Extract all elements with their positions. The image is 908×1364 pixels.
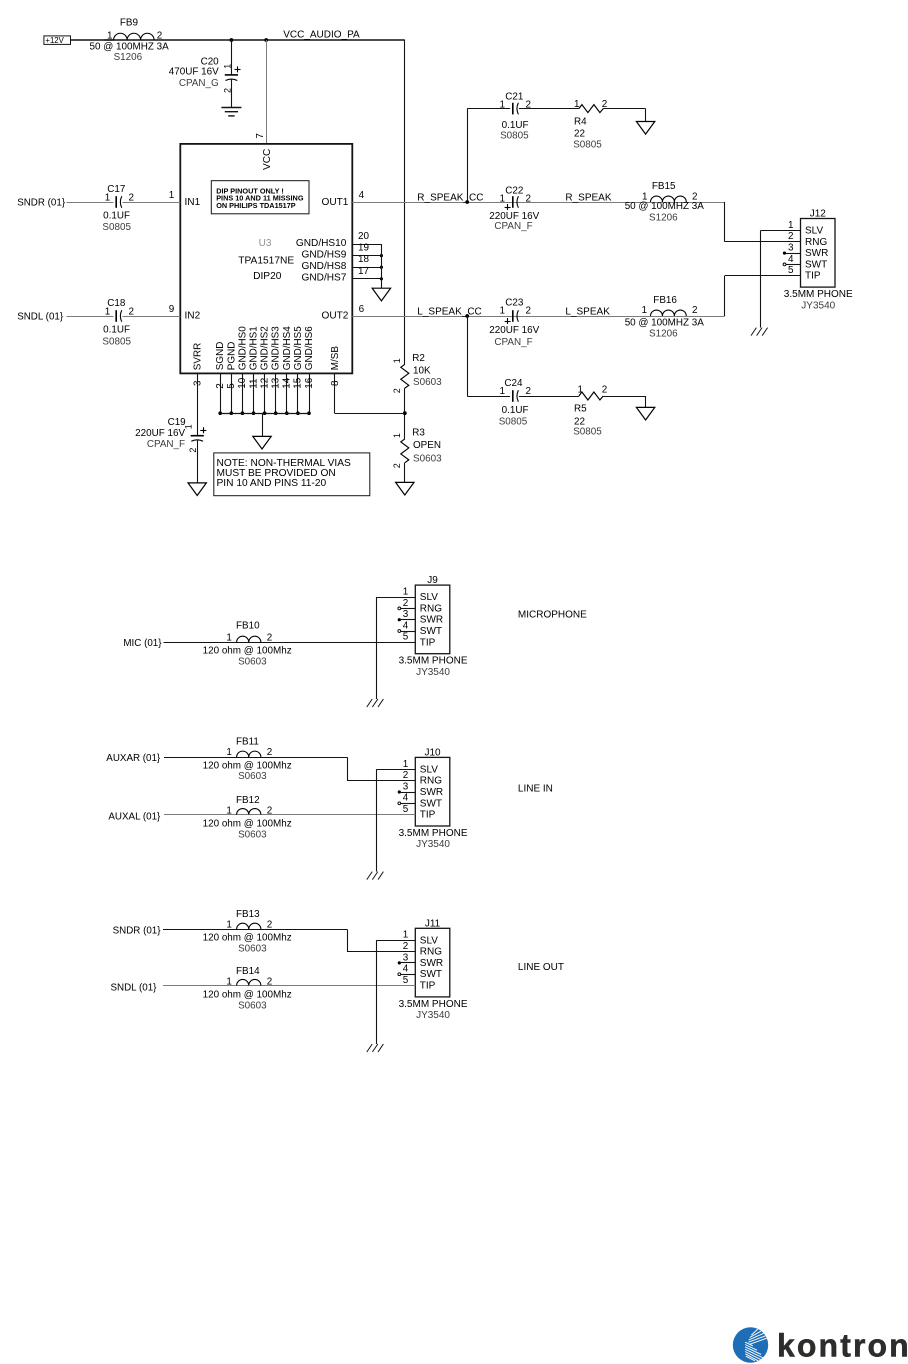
- svg-text:TIP: TIP: [420, 637, 436, 648]
- svg-text:FB16: FB16: [653, 295, 677, 306]
- svg-text:RNG: RNG: [805, 237, 827, 248]
- svg-text:2: 2: [602, 99, 608, 110]
- svg-text:4: 4: [403, 620, 409, 631]
- svg-text:2: 2: [392, 388, 402, 393]
- svg-text:FB11: FB11: [236, 737, 259, 748]
- svg-text:R2: R2: [412, 353, 425, 364]
- svg-text:50 @ 100MHZ 3A: 50 @ 100MHZ 3A: [625, 317, 705, 328]
- svg-text:S0603: S0603: [238, 771, 267, 782]
- svg-text:2: 2: [526, 194, 532, 205]
- svg-text:1: 1: [403, 587, 409, 598]
- svg-text:VCC: VCC: [262, 149, 273, 170]
- svg-text:20: 20: [358, 231, 369, 242]
- svg-text:3.5MM PHONE: 3.5MM PHONE: [399, 999, 468, 1010]
- svg-text:OUT1: OUT1: [321, 197, 348, 208]
- svg-text:2: 2: [392, 463, 402, 468]
- svg-text:1: 1: [226, 977, 232, 988]
- svg-text:SNDR (01}: SNDR (01}: [17, 197, 66, 208]
- svg-text:3.5MM PHONE: 3.5MM PHONE: [399, 656, 468, 667]
- svg-text:TPA1517NE: TPA1517NE: [238, 255, 294, 266]
- svg-text:1: 1: [107, 30, 113, 41]
- svg-text:SWR: SWR: [420, 958, 443, 969]
- svg-text:OUT2: OUT2: [321, 311, 348, 322]
- svg-text:CPAN_F: CPAN_F: [147, 439, 185, 450]
- svg-text:1: 1: [105, 306, 111, 317]
- svg-text:S0603: S0603: [238, 1001, 267, 1012]
- svg-text:5: 5: [788, 265, 794, 276]
- svg-text:JY3540: JY3540: [801, 300, 835, 311]
- svg-text:FB12: FB12: [236, 795, 260, 806]
- svg-text:S0805: S0805: [573, 427, 602, 438]
- svg-text:GND/HS10: GND/HS10: [296, 238, 347, 249]
- svg-text:0.1UF: 0.1UF: [502, 120, 529, 131]
- svg-text:S1206: S1206: [649, 213, 678, 224]
- svg-text:S0603: S0603: [238, 829, 267, 840]
- svg-text:220UF 16V: 220UF 16V: [135, 428, 185, 439]
- svg-text:2: 2: [267, 805, 273, 816]
- svg-text:S0805: S0805: [499, 417, 528, 428]
- svg-text:SWT: SWT: [420, 969, 442, 980]
- svg-text:19: 19: [358, 243, 369, 254]
- svg-text:OPEN: OPEN: [413, 440, 441, 451]
- svg-text:SWT: SWT: [420, 626, 442, 637]
- svg-text:4: 4: [403, 964, 409, 975]
- svg-text:SWR: SWR: [805, 248, 828, 259]
- svg-text:17: 17: [358, 266, 369, 277]
- svg-text:2: 2: [403, 598, 409, 609]
- svg-text:1: 1: [788, 220, 794, 231]
- svg-text:5: 5: [403, 975, 409, 986]
- svg-text:1: 1: [392, 433, 402, 438]
- svg-text:FB10: FB10: [236, 621, 260, 632]
- svg-text:S0805: S0805: [500, 131, 529, 142]
- svg-text:AUXAR (01}: AUXAR (01}: [106, 753, 161, 764]
- svg-text:SWR: SWR: [420, 615, 443, 626]
- svg-text:1: 1: [226, 632, 232, 643]
- svg-text:R4: R4: [574, 116, 587, 127]
- svg-text:3: 3: [403, 781, 409, 792]
- svg-text:220UF 16V: 220UF 16V: [489, 325, 539, 336]
- svg-text:GND/HS3: GND/HS3: [271, 326, 282, 370]
- svg-text:1: 1: [392, 358, 402, 363]
- svg-text:J10: J10: [424, 747, 441, 758]
- svg-text:PGND: PGND: [226, 342, 237, 371]
- svg-text:5: 5: [403, 804, 409, 815]
- svg-text:JY3540: JY3540: [416, 1010, 450, 1021]
- svg-text:10K: 10K: [413, 366, 431, 377]
- svg-text:2: 2: [129, 192, 135, 203]
- svg-text:2: 2: [215, 383, 226, 389]
- svg-text:11: 11: [248, 378, 259, 389]
- svg-text:SGND: SGND: [215, 342, 226, 371]
- svg-text:SNDL (01}: SNDL (01}: [111, 983, 158, 994]
- svg-text:3: 3: [193, 380, 204, 386]
- svg-text:10: 10: [237, 377, 248, 388]
- svg-text:SLV: SLV: [420, 935, 438, 946]
- svg-text:GND/HS9: GND/HS9: [302, 250, 347, 261]
- svg-text:2: 2: [526, 386, 532, 397]
- svg-text:120 ohm @ 100Mhz: 120 ohm @ 100Mhz: [203, 760, 292, 771]
- svg-text:JY3540: JY3540: [416, 667, 450, 678]
- svg-text:LINE OUT: LINE OUT: [518, 962, 564, 973]
- svg-text:14: 14: [282, 377, 293, 388]
- svg-text:S0603: S0603: [413, 454, 442, 465]
- svg-text:18: 18: [358, 254, 369, 265]
- svg-text:2: 2: [188, 448, 198, 453]
- svg-text:L_SPEAK_CC: L_SPEAK_CC: [417, 306, 481, 317]
- svg-text:SLV: SLV: [420, 764, 438, 775]
- svg-text:16: 16: [304, 377, 315, 388]
- svg-text:2: 2: [403, 941, 409, 952]
- svg-text:PIN 10 AND PINS 11-20: PIN 10 AND PINS 11-20: [217, 478, 327, 489]
- svg-text:1: 1: [105, 192, 111, 203]
- svg-text:1: 1: [500, 100, 506, 111]
- svg-text:1: 1: [500, 306, 506, 317]
- svg-text:RNG: RNG: [420, 603, 442, 614]
- svg-text:15: 15: [293, 377, 304, 388]
- svg-text:TIP: TIP: [805, 271, 821, 282]
- svg-text:1: 1: [574, 99, 580, 110]
- svg-text:1: 1: [222, 64, 232, 69]
- svg-text:L_SPEAK: L_SPEAK: [565, 306, 610, 317]
- svg-text:1: 1: [500, 194, 506, 205]
- svg-text:MIC (01}: MIC (01}: [123, 638, 162, 649]
- svg-text:SWT: SWT: [420, 798, 442, 809]
- svg-text:FB13: FB13: [236, 909, 260, 920]
- svg-text:8: 8: [330, 380, 341, 386]
- svg-text:470UF 16V: 470UF 16V: [169, 67, 219, 78]
- svg-text:S0805: S0805: [102, 336, 131, 347]
- svg-text:ON PHILIPS TDA1517P: ON PHILIPS TDA1517P: [216, 201, 296, 210]
- svg-text:GND/HS2: GND/HS2: [260, 326, 271, 370]
- svg-text:R_SPEAK: R_SPEAK: [565, 192, 611, 203]
- svg-text:2: 2: [267, 919, 273, 930]
- svg-text:RNG: RNG: [420, 776, 442, 787]
- svg-text:120 ohm @ 100Mhz: 120 ohm @ 100Mhz: [203, 990, 292, 1001]
- svg-text:1: 1: [226, 747, 232, 758]
- svg-text:2: 2: [157, 30, 163, 41]
- svg-text:13: 13: [271, 377, 282, 388]
- svg-text:S0805: S0805: [102, 222, 131, 233]
- svg-text:12: 12: [259, 378, 270, 389]
- svg-text:3.5MM PHONE: 3.5MM PHONE: [399, 828, 468, 839]
- svg-text:FB9: FB9: [120, 18, 139, 29]
- svg-text:2: 2: [526, 100, 532, 111]
- svg-text:kontron: kontron: [777, 1328, 908, 1364]
- svg-text:S1206: S1206: [114, 52, 143, 63]
- svg-text:4: 4: [403, 793, 409, 804]
- svg-text:0.1UF: 0.1UF: [103, 325, 130, 336]
- svg-text:R_SPEAK_CC: R_SPEAK_CC: [417, 192, 483, 203]
- svg-text:SNDR (01}: SNDR (01}: [113, 925, 162, 936]
- svg-text:120 ohm @ 100Mhz: 120 ohm @ 100Mhz: [203, 932, 292, 943]
- svg-text:C24: C24: [504, 378, 523, 389]
- svg-text:MICROPHONE: MICROPHONE: [518, 609, 587, 620]
- svg-text:1: 1: [169, 190, 175, 201]
- svg-text:3: 3: [403, 609, 409, 620]
- svg-text:SNDL (01}: SNDL (01}: [17, 311, 64, 322]
- svg-text:S0603: S0603: [413, 377, 442, 388]
- svg-text:JY3540: JY3540: [416, 839, 450, 850]
- svg-text:2: 2: [267, 632, 273, 643]
- svg-text:R3: R3: [412, 428, 425, 439]
- svg-text:5: 5: [226, 383, 237, 389]
- svg-text:120 ohm @ 100Mhz: 120 ohm @ 100Mhz: [203, 645, 292, 656]
- svg-text:1: 1: [226, 805, 232, 816]
- svg-text:VCC_AUDIO_PA: VCC_AUDIO_PA: [283, 30, 360, 41]
- svg-text:4: 4: [788, 254, 794, 265]
- svg-text:CPAN_F: CPAN_F: [494, 221, 532, 232]
- svg-text:3.5MM PHONE: 3.5MM PHONE: [784, 289, 853, 300]
- svg-text:22: 22: [574, 129, 585, 140]
- svg-text:6: 6: [359, 304, 365, 315]
- svg-text:CPAN_F: CPAN_F: [494, 337, 532, 348]
- svg-text:J11: J11: [425, 918, 441, 929]
- svg-text:GND/HS8: GND/HS8: [302, 261, 347, 272]
- svg-text:S0603: S0603: [238, 656, 267, 667]
- svg-text:RNG: RNG: [420, 947, 442, 958]
- svg-text:2: 2: [526, 306, 532, 317]
- svg-text:TIP: TIP: [420, 810, 436, 821]
- svg-text:5: 5: [403, 632, 409, 643]
- svg-text:S1206: S1206: [649, 329, 678, 340]
- svg-text:AUXAL (01}: AUXAL (01}: [108, 811, 161, 822]
- svg-text:SLV: SLV: [805, 226, 823, 237]
- svg-text:LINE IN: LINE IN: [518, 783, 553, 794]
- svg-text:IN1: IN1: [185, 197, 201, 208]
- svg-text:50 @ 100MHZ 3A: 50 @ 100MHZ 3A: [625, 201, 705, 212]
- svg-text:0.1UF: 0.1UF: [103, 211, 130, 222]
- svg-text:J12: J12: [810, 209, 827, 220]
- svg-text:1: 1: [183, 424, 193, 429]
- svg-text:2: 2: [222, 88, 232, 93]
- svg-text:2: 2: [602, 385, 608, 396]
- svg-text:7: 7: [255, 133, 266, 139]
- svg-text:GND/HS4: GND/HS4: [282, 326, 293, 370]
- svg-text:120 ohm @ 100Mhz: 120 ohm @ 100Mhz: [203, 819, 292, 830]
- svg-text:1: 1: [226, 919, 232, 930]
- svg-text:50 @ 100MHZ 3A: 50 @ 100MHZ 3A: [90, 42, 170, 53]
- svg-text:2: 2: [403, 770, 409, 781]
- svg-text:2: 2: [129, 306, 135, 317]
- svg-text:J9: J9: [427, 575, 438, 586]
- svg-text:C22: C22: [505, 186, 523, 197]
- svg-text:C23: C23: [505, 298, 524, 309]
- svg-text:1: 1: [403, 759, 409, 770]
- svg-text:R5: R5: [574, 404, 587, 415]
- svg-text:2: 2: [267, 747, 273, 758]
- svg-text:1: 1: [578, 385, 584, 396]
- svg-text:4: 4: [359, 190, 365, 201]
- svg-text:1: 1: [403, 930, 409, 941]
- svg-text:SWR: SWR: [420, 787, 443, 798]
- svg-text:S0603: S0603: [238, 943, 267, 954]
- svg-text:M/SB: M/SB: [330, 346, 341, 371]
- svg-text:2: 2: [788, 231, 794, 242]
- svg-text:9: 9: [169, 304, 175, 315]
- svg-text:DIP20: DIP20: [253, 271, 282, 282]
- svg-text:CPAN_G: CPAN_G: [179, 78, 219, 89]
- svg-text:TIP: TIP: [420, 981, 436, 992]
- svg-text:SWT: SWT: [805, 259, 827, 270]
- svg-text:3: 3: [403, 952, 409, 963]
- svg-text:SVRR: SVRR: [193, 343, 204, 370]
- svg-text:2: 2: [692, 305, 698, 316]
- svg-text:U3: U3: [259, 238, 272, 249]
- svg-text:1: 1: [642, 305, 648, 316]
- svg-text:FB14: FB14: [236, 966, 260, 977]
- svg-text:IN2: IN2: [185, 311, 201, 322]
- svg-text:3: 3: [788, 243, 794, 254]
- svg-text:+12V: +12V: [45, 36, 64, 45]
- svg-text:C21: C21: [505, 92, 524, 103]
- svg-text:GND/HS7: GND/HS7: [302, 273, 347, 284]
- svg-text:0.1UF: 0.1UF: [502, 405, 529, 416]
- svg-text:SLV: SLV: [420, 592, 438, 603]
- svg-text:GND/HS5: GND/HS5: [293, 326, 304, 370]
- svg-text:S0805: S0805: [573, 139, 602, 150]
- svg-text:2: 2: [267, 977, 273, 988]
- svg-text:1: 1: [500, 386, 506, 397]
- svg-text:GND/HS6: GND/HS6: [304, 326, 315, 370]
- svg-text:FB15: FB15: [652, 181, 676, 192]
- svg-text:GND/HS1: GND/HS1: [249, 326, 260, 370]
- svg-text:GND/HS0: GND/HS0: [237, 326, 248, 370]
